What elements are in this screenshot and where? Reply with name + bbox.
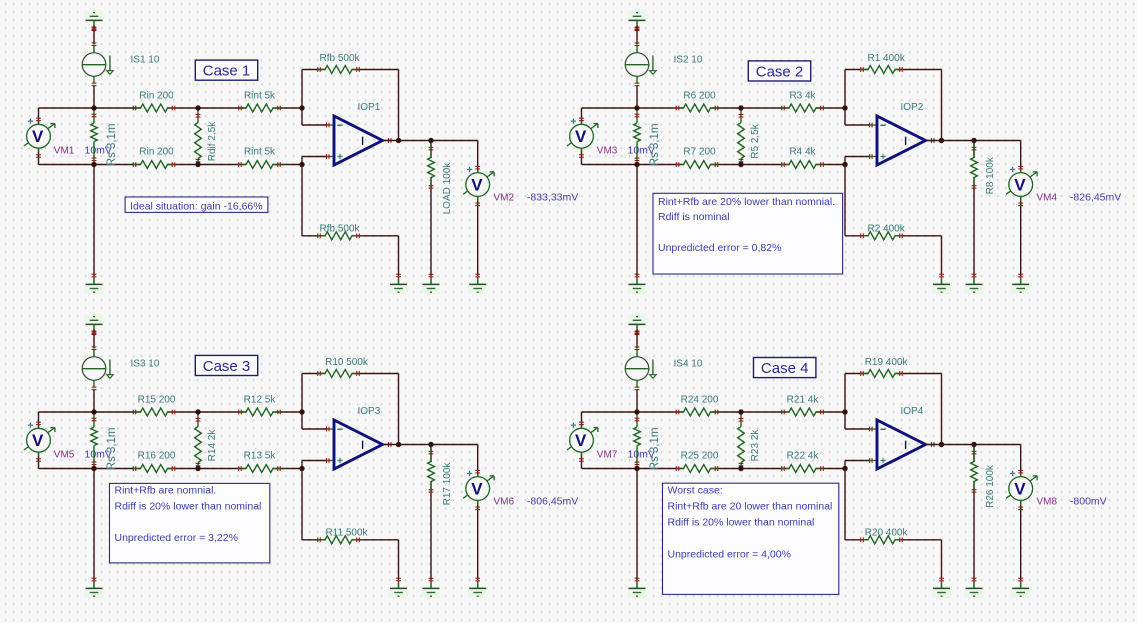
- svg-text:V: V: [575, 127, 587, 146]
- wire feedback bottom: [845, 165, 942, 277]
- wire upper rail: [582, 411, 846, 413]
- resistor R23 2k (differential): [738, 414, 761, 467]
- resistor Rint 5k (upper): [238, 91, 281, 113]
- wire non-inverting input: [845, 461, 871, 469]
- ground (voltmeter VM2): [468, 274, 487, 294]
- wire non-inverting input: [302, 157, 328, 165]
- svg-text:Case 3: Case 3: [203, 358, 251, 375]
- current source IS1: [82, 42, 160, 86]
- junction node in-top: [91, 105, 96, 110]
- resistor R16 200 (lower): [133, 450, 176, 472]
- resistor Rdif 2,5k (differential): [195, 110, 218, 163]
- wire output voltmeter VM8: [1020, 445, 1022, 581]
- resistor Rfb 500k (feedback bottom): [317, 223, 360, 239]
- svg-text:V: V: [575, 431, 587, 450]
- svg-text:IS4 10: IS4 10: [674, 359, 703, 370]
- ground (source): [85, 274, 104, 294]
- resistor R14 2k (differential): [195, 414, 218, 467]
- svg-text:Rint 5k: Rint 5k: [244, 91, 276, 102]
- svg-text:R24 200: R24 200: [681, 395, 719, 406]
- ground (source): [628, 274, 647, 294]
- annotation note case 4: [663, 483, 839, 594]
- svg-text:R26 100k: R26 100k: [985, 464, 996, 508]
- junction node mid-bottom: [738, 162, 743, 167]
- ground (voltmeter VM4): [1011, 274, 1030, 294]
- ground (top of IS1): [85, 11, 104, 31]
- junction node mid-top: [738, 409, 743, 414]
- resistor R19 400k (feedback top): [860, 357, 908, 378]
- svg-text:Unpredicted error = 0,82%: Unpredicted error = 0,82%: [658, 242, 781, 254]
- svg-text:R23 2k: R23 2k: [750, 429, 761, 462]
- wire inverting input: [302, 108, 328, 125]
- junction node mid-top: [738, 105, 743, 110]
- wire feedback bottom: [845, 469, 942, 581]
- wire IS4 to node: [636, 390, 638, 412]
- svg-text:R5 2,5k: R5 2,5k: [750, 123, 761, 158]
- wire voltmeter VM3 branch: [581, 108, 583, 165]
- junction node mid-bottom: [738, 466, 743, 471]
- wire IS3 to node: [93, 390, 95, 412]
- svg-text:R16 200: R16 200: [138, 450, 176, 461]
- ground (top of IS2): [628, 11, 647, 31]
- resistor Rs 1m (source resistance): [634, 414, 661, 470]
- ground (load): [965, 578, 984, 598]
- wire ground to IS3: [92, 330, 97, 349]
- junction node in-bottom: [634, 162, 639, 167]
- voltmeter VM2: [463, 166, 578, 206]
- wire to ground (source): [636, 165, 638, 277]
- label box Case 1: [195, 60, 257, 80]
- ground (source): [85, 578, 104, 598]
- wire feedback top: [845, 374, 942, 445]
- junction node output: [939, 442, 944, 447]
- junction node mid-top: [195, 105, 200, 110]
- voltmeter VM6: [463, 470, 578, 510]
- svg-text:Rs 3,1m: Rs 3,1m: [649, 427, 661, 470]
- wire lower rail: [39, 468, 303, 470]
- svg-text:Ideal situation: gain -16,66%: Ideal situation: gain -16,66%: [130, 200, 263, 212]
- wire to ground (source): [93, 165, 95, 277]
- wire lower rail: [582, 164, 846, 166]
- wire upper rail: [582, 107, 846, 109]
- resistor R24 200 (upper): [676, 395, 719, 417]
- wire inverting input: [845, 412, 871, 429]
- junction node in-bottom: [91, 466, 96, 471]
- junction node fb-top: [299, 105, 304, 110]
- svg-text:-826,45mV: -826,45mV: [1070, 192, 1121, 204]
- svg-text:Rs 3,1m: Rs 3,1m: [649, 123, 661, 166]
- wire voltmeter VM1 branch: [38, 108, 40, 165]
- resistor R1 400k (feedback top): [860, 53, 906, 74]
- svg-text:Rs 3,1m: Rs 3,1m: [106, 427, 118, 470]
- resistor R25 200 (lower): [676, 450, 719, 472]
- resistor Rs 1m (source resistance): [91, 110, 118, 166]
- svg-text:Rint 5k: Rint 5k: [244, 146, 276, 157]
- svg-text:V: V: [471, 479, 483, 498]
- junction node fb-bottom: [842, 466, 847, 471]
- svg-text:IOP2: IOP2: [901, 102, 924, 113]
- junction node in-bottom: [91, 162, 96, 167]
- junction node mid-top: [195, 409, 200, 414]
- junction node output: [396, 138, 401, 143]
- svg-text:R14 2k: R14 2k: [207, 429, 218, 462]
- wire inverting input: [302, 412, 328, 429]
- junction node in-top: [634, 105, 639, 110]
- svg-text:R15 200: R15 200: [138, 395, 176, 406]
- svg-text:R6 200: R6 200: [683, 91, 716, 102]
- svg-text:Rdif 2,5k: Rdif 2,5k: [207, 121, 218, 161]
- voltmeter VM4: [1006, 166, 1121, 206]
- resistor R4 4k (lower): [781, 146, 824, 168]
- svg-text:VM2: VM2: [494, 193, 515, 204]
- ground (source): [628, 578, 647, 598]
- current source IS3: [82, 346, 160, 390]
- svg-text:R1 400k: R1 400k: [867, 53, 905, 64]
- junction node load: [428, 442, 433, 447]
- resistor R21 4k (upper): [781, 395, 824, 417]
- svg-text:Case 1: Case 1: [203, 63, 251, 80]
- op-amp IOP3: [326, 406, 392, 469]
- current source IS4: [625, 346, 703, 390]
- svg-text:V: V: [32, 431, 44, 450]
- ground (top of IS3): [85, 315, 104, 335]
- wire feedback bottom: [302, 469, 399, 581]
- resistor Rint 5k (lower): [238, 146, 281, 168]
- svg-text:R3 4k: R3 4k: [789, 91, 816, 102]
- svg-text:IS3 10: IS3 10: [131, 359, 160, 370]
- resistor R22 4k (lower): [781, 450, 824, 472]
- resistor Rin 200 (lower): [133, 146, 176, 168]
- junction node fb-top: [299, 409, 304, 414]
- svg-text:Rfb 500k: Rfb 500k: [319, 223, 360, 234]
- svg-text:Rs 3,1m: Rs 3,1m: [106, 123, 118, 166]
- ground (feedback): [389, 578, 408, 598]
- svg-text:R25 200: R25 200: [681, 450, 719, 461]
- wire feedback top: [302, 374, 399, 445]
- wire IS1 to node: [93, 86, 95, 108]
- svg-text:Rint+Rfb are nomnial.: Rint+Rfb are nomnial.: [115, 485, 217, 497]
- junction node fb-bottom: [299, 466, 304, 471]
- label box Case 2: [748, 61, 810, 81]
- resistor Rfb 500k (feedback top): [317, 53, 360, 74]
- voltmeter VM3: [567, 118, 655, 158]
- resistor R15 200 (upper): [133, 395, 176, 417]
- junction node mid-bottom: [195, 466, 200, 471]
- resistor R17 100k (load): [428, 445, 453, 581]
- op-amp IOP2: [869, 102, 935, 165]
- svg-text:R13 5k: R13 5k: [244, 450, 277, 461]
- svg-text:Worst case:: Worst case:: [668, 484, 723, 496]
- svg-text:Rdiff is 20% lower than nomina: Rdiff is 20% lower than nominal: [668, 516, 815, 528]
- svg-text:IOP3: IOP3: [358, 406, 381, 417]
- resistor R2 400k (feedback bottom): [860, 223, 906, 239]
- wire ground to IS2: [635, 26, 640, 45]
- wire non-inverting input: [845, 157, 871, 165]
- wire output rail: [926, 444, 1021, 446]
- ground (load): [965, 274, 984, 294]
- svg-text:Unpredicted error = 4,00%: Unpredicted error = 4,00%: [668, 548, 791, 560]
- resistor R8 100k (load): [971, 141, 996, 277]
- wire upper rail: [39, 107, 303, 109]
- junction node in-bottom: [634, 466, 639, 471]
- svg-text:V: V: [32, 127, 44, 146]
- ground (voltmeter VM6): [468, 578, 487, 598]
- ground (load): [422, 274, 441, 294]
- wire output voltmeter VM4: [1020, 141, 1022, 277]
- wire ground to IS1: [92, 26, 97, 45]
- resistor R12 5k (upper): [238, 395, 281, 417]
- svg-text:R20 400k: R20 400k: [865, 527, 909, 538]
- svg-text:IOP1: IOP1: [358, 102, 381, 113]
- svg-text:R21 4k: R21 4k: [787, 395, 820, 406]
- junction node fb-top: [842, 409, 847, 414]
- junction node load: [971, 138, 976, 143]
- junction node load: [971, 442, 976, 447]
- svg-text:Rdiff is nominal: Rdiff is nominal: [658, 211, 730, 223]
- svg-text:Case 2: Case 2: [756, 63, 804, 80]
- junction node load: [428, 138, 433, 143]
- svg-text:Rin 200: Rin 200: [139, 91, 174, 102]
- svg-text:VM4: VM4: [1037, 193, 1058, 204]
- svg-text:IS2 10: IS2 10: [674, 55, 703, 66]
- op-amp IOP4: [869, 406, 935, 469]
- svg-text:V: V: [471, 175, 483, 194]
- wire voltmeter VM5 branch: [38, 412, 40, 469]
- wire output voltmeter VM2: [477, 141, 479, 277]
- resistor Rs 1m (source resistance): [91, 414, 118, 470]
- svg-text:VM1: VM1: [54, 145, 75, 156]
- svg-text:VM3: VM3: [597, 145, 618, 156]
- svg-text:Rin 200: Rin 200: [139, 146, 174, 157]
- svg-text:R10 500k: R10 500k: [325, 357, 369, 368]
- wire lower rail: [582, 468, 846, 470]
- op-amp IOP1: [326, 102, 392, 165]
- resistor R11 500k (feedback bottom): [317, 527, 368, 543]
- svg-text:LOAD 100k: LOAD 100k: [442, 162, 453, 215]
- svg-text:R2 400k: R2 400k: [867, 223, 905, 234]
- svg-text:VM6: VM6: [494, 497, 515, 508]
- junction node output: [939, 138, 944, 143]
- svg-text:VM5: VM5: [54, 449, 75, 460]
- svg-text:-833,33mV: -833,33mV: [527, 192, 578, 204]
- svg-text:Rfb 500k: Rfb 500k: [319, 53, 360, 64]
- svg-text:R7 200: R7 200: [683, 146, 716, 157]
- annotation note case 2: [653, 193, 843, 274]
- junction node fb-bottom: [842, 162, 847, 167]
- label box Case 4: [754, 358, 816, 378]
- resistor R13 5k (lower): [238, 450, 281, 472]
- svg-text:VM8: VM8: [1037, 497, 1058, 508]
- wire feedback top: [302, 70, 399, 141]
- svg-text:IOP4: IOP4: [901, 406, 924, 417]
- wire to ground (source): [636, 469, 638, 581]
- junction node fb-top: [842, 105, 847, 110]
- resistor LOAD 100k (load): [428, 141, 453, 277]
- wire ground to IS4: [635, 330, 640, 349]
- junction node mid-bottom: [195, 162, 200, 167]
- ground (feedback): [932, 274, 951, 294]
- wire feedback bottom: [302, 165, 399, 277]
- wire IS2 to node: [636, 86, 638, 108]
- resistor Rin 200 (upper): [133, 91, 176, 113]
- svg-text:R4 4k: R4 4k: [789, 146, 816, 157]
- wire output voltmeter VM6: [477, 445, 479, 581]
- annotation note case 1: [125, 197, 268, 212]
- junction node fb-bottom: [299, 162, 304, 167]
- resistor Rs 1m (source resistance): [634, 110, 661, 166]
- svg-text:-806,45mV: -806,45mV: [527, 496, 578, 508]
- voltmeter VM1: [24, 118, 112, 158]
- svg-text:VM7: VM7: [597, 449, 618, 460]
- junction node output: [396, 442, 401, 447]
- voltmeter VM8: [1006, 470, 1107, 510]
- resistor R3 4k (upper): [781, 91, 824, 113]
- svg-text:V: V: [1014, 175, 1026, 194]
- resistor R20 400k (feedback bottom): [860, 527, 908, 543]
- label box Case 3: [195, 355, 257, 375]
- wire output rail: [383, 140, 478, 142]
- voltmeter VM5: [24, 422, 112, 462]
- wire inverting input: [845, 108, 871, 125]
- svg-text:R19 400k: R19 400k: [865, 357, 909, 368]
- svg-text:IS1 10: IS1 10: [131, 55, 160, 66]
- wire voltmeter VM7 branch: [581, 412, 583, 469]
- resistor R26 100k (load): [971, 445, 996, 581]
- svg-text:Rint+Rfb are 20% lower than no: Rint+Rfb are 20% lower than nomnial.: [658, 196, 835, 208]
- resistor R6 200 (upper): [676, 91, 719, 113]
- svg-text:R22 4k: R22 4k: [787, 450, 820, 461]
- current source IS2: [625, 42, 703, 86]
- resistor R5 2,5k (differential): [738, 110, 761, 163]
- junction node in-top: [91, 409, 96, 414]
- ground (load): [422, 578, 441, 598]
- resistor R7 200 (lower): [676, 146, 719, 168]
- svg-text:R8 100k: R8 100k: [985, 156, 996, 194]
- ground (voltmeter VM8): [1011, 578, 1030, 598]
- svg-text:Case 4: Case 4: [761, 360, 809, 377]
- annotation note case 3: [110, 483, 270, 563]
- ground (top of IS4): [628, 315, 647, 335]
- wire non-inverting input: [302, 461, 328, 469]
- ground (feedback): [389, 274, 408, 294]
- ground (feedback): [932, 578, 951, 598]
- svg-text:-800mV: -800mV: [1070, 496, 1107, 508]
- svg-text:V: V: [1014, 479, 1026, 498]
- junction node in-top: [634, 409, 639, 414]
- wire upper rail: [39, 411, 303, 413]
- resistor R10 500k (feedback top): [317, 357, 369, 378]
- svg-text:R11 500k: R11 500k: [325, 527, 368, 538]
- voltmeter VM7: [567, 422, 655, 462]
- wire output rail: [926, 140, 1021, 142]
- wire output rail: [383, 444, 478, 446]
- svg-text:Rdiff is 20% lower than nomina: Rdiff is 20% lower than nominal: [115, 500, 262, 512]
- svg-text:R12 5k: R12 5k: [244, 395, 277, 406]
- svg-text:R17 100k: R17 100k: [442, 462, 453, 506]
- wire feedback top: [845, 70, 942, 141]
- svg-text:Unpredicted error = 3,22%: Unpredicted error = 3,22%: [115, 532, 238, 544]
- wire lower rail: [39, 164, 303, 166]
- wire to ground (source): [93, 469, 95, 581]
- svg-text:Rint+Rfb are 20 lower than nom: Rint+Rfb are 20 lower than nominal: [668, 500, 833, 512]
